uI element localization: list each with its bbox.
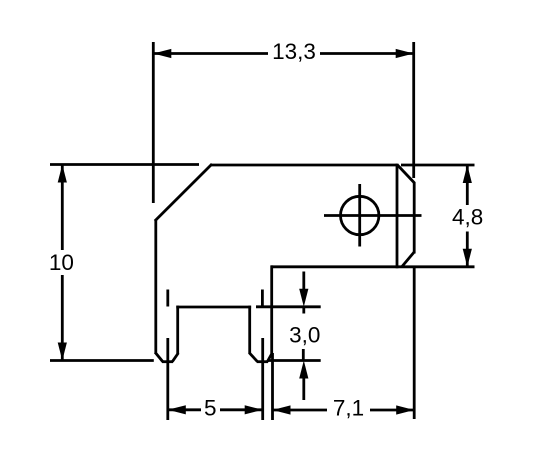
pin 2 bottom-right chamfer [267, 353, 272, 362]
dim 7,1 right arrowhead [396, 405, 414, 414]
dim 3,0 upper arrowhead pointing down [299, 289, 308, 307]
svg-text:13,3: 13,3 [272, 39, 316, 64]
pin 2 bottom-left chamfer [249, 353, 257, 362]
dim 3,0 lower tail [302, 377, 305, 400]
dim 5 left arrowhead [168, 405, 186, 414]
dim 7,1 left extension line [271, 353, 274, 420]
dim 13,3 line left segment [153, 52, 268, 55]
dim 4,8 top extension line [401, 164, 475, 167]
right end cap bottom chamfer [402, 252, 414, 267]
dim 7,1 line left segment [273, 409, 328, 412]
svg-text:7,1: 7,1 [333, 396, 364, 421]
right end cap outer vertical [413, 182, 416, 254]
dim 13,3 left arrowhead [153, 49, 171, 58]
dim 3,0 upper tail [302, 272, 305, 292]
part top edge [211, 164, 397, 167]
pin 2 right edge [270, 265, 273, 353]
pin 1 right edge [176, 306, 179, 354]
pin 1 bottom edge [162, 360, 173, 363]
right end inner vertical [396, 164, 399, 269]
svg-text:10: 10 [49, 250, 74, 275]
dim 5 right arrowhead [245, 405, 263, 414]
svg-text:3,0: 3,0 [289, 323, 320, 348]
web between pins [176, 306, 251, 309]
svg-text:5: 5 [204, 395, 217, 420]
dim 13,3 line right segment [320, 52, 414, 55]
part top-left chamfer [155, 164, 212, 221]
flag bottom edge with 4,8 extension [271, 265, 475, 268]
dim 5 left extension line [166, 338, 169, 420]
svg-text:4,8: 4,8 [452, 204, 483, 229]
pin 2 bottom edge [257, 360, 268, 363]
dim 10 top arrowhead [58, 165, 67, 183]
dim 13,3 right arrowhead [396, 49, 414, 58]
pin 2 left edge [248, 306, 251, 354]
hole horizontal centerline [324, 214, 422, 217]
dim 10 bottom extension line [50, 359, 154, 362]
dim 4,8 bottom arrowhead [463, 249, 472, 267]
pin 1 bottom-left chamfer [155, 352, 163, 362]
pin 2 center mark [261, 290, 264, 307]
dim 10 line top segment [61, 165, 64, 251]
dim 13,3 left extension line [152, 42, 155, 203]
dim 3,0 top reference line [256, 305, 321, 308]
dim 5 line left segment [168, 408, 201, 411]
dim 7,1 line right segment [370, 409, 414, 412]
dim 7,1 left arrowhead [273, 405, 291, 414]
hole circle [341, 196, 379, 234]
hole vertical centerline [358, 184, 361, 247]
dim 10 top extension line [50, 163, 199, 166]
dim 3,0 bottom reference line [268, 359, 321, 362]
dim 3,0 lower stub [302, 349, 305, 361]
dim 3,0 upper stub [302, 307, 305, 314]
pin 1 bottom-right chamfer [172, 353, 178, 362]
dim 3,0 lower arrowhead pointing up [299, 361, 308, 379]
dim 7,1 right extension line [413, 267, 416, 419]
dim 4,8 line top segment [466, 165, 469, 205]
pin 1 center mark [166, 290, 169, 307]
dim 10 line bottom segment [61, 275, 64, 361]
part left edge [154, 220, 157, 353]
dim 5 right extension line [261, 338, 264, 420]
dim 10 bottom arrowhead [58, 343, 67, 361]
dim 4,8 top arrowhead [463, 165, 472, 183]
right end cap top chamfer [397, 165, 415, 184]
dim 13,3 right extension line [412, 42, 415, 178]
dim 4,8 line bottom segment [466, 232, 469, 267]
dim 5 line right segment [220, 408, 263, 411]
